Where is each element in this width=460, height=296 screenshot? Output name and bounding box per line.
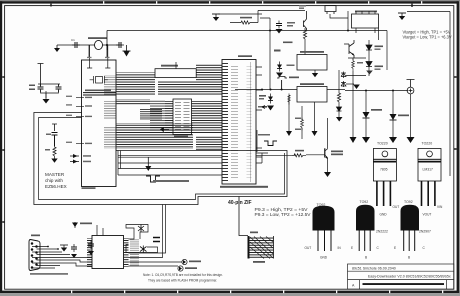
TO92 Q2 [394,200,431,260]
pin names U1 inside left [85,97,92,98]
wires U7 to master [129,205,166,258]
diode D1 [277,62,282,72]
label R9 [45,149,50,151]
ground Q4 emitter [324,172,331,177]
svg-text:Note: 1. C6,C9,R7S,9TB are not: Note: 1. C6,C9,R7S,9TB are not installed… [143,273,223,277]
diode D9 [74,222,76,228]
ground mid-top [212,14,220,21]
pins U4 left [165,101,173,133]
ground K1 [312,73,318,77]
TO220 U3 7805 [367,142,399,217]
ground top-right [398,13,406,20]
resistor network RP1 [239,197,274,263]
pin labels U7 right [130,239,139,266]
MCU U1 89C51 box [82,60,117,187]
resistor R9 [53,145,56,159]
label R5 [357,62,363,64]
ground D1 [276,73,283,78]
ground DB9 [60,245,68,252]
zener ZD3 [341,72,346,79]
capacitor C9 [88,241,94,249]
capacitor C8 [71,244,77,252]
svg-text:VIN: VIN [437,205,443,209]
svg-text:They are based with FLASH PROM: They are based with FLASH PROM programme… [148,279,217,283]
pin numbers U1 top [87,57,92,58]
pins U4 inner [175,102,181,132]
zener D11 [140,246,147,253]
label LED2 [185,267,197,269]
arrow marker fan [161,128,170,132]
body Q1 [356,205,375,231]
label C10 [287,22,295,24]
label D2 [259,95,266,97]
body U5 [418,159,441,181]
arrow net marker [262,106,267,109]
loop wire lower [126,245,158,253]
junction U6 in [261,89,263,91]
label AT89C51 below box [82,187,96,189]
TO92 Q1 [351,200,388,260]
capacitor C7 [52,133,58,147]
latch U2 box [155,62,196,78]
ground R9 [51,159,57,163]
MAX232 U7 box [92,236,124,269]
resistor R2 [303,28,306,42]
resistor R10 [292,154,306,157]
wire U7 out right [129,262,183,266]
wire U6 out [327,89,345,91]
label D8 [398,115,409,117]
pin K1 inner [314,70,316,73]
svg-text:TO92: TO92 [404,200,413,204]
wire fuse drop [281,80,283,90]
label L2 [283,42,293,44]
ground D8 [389,137,397,143]
bracket symbol reset [146,176,160,182]
label MASTER chip [45,172,67,189]
wire row E [118,174,222,176]
ground TP1 [407,137,415,143]
label RP1 value [253,261,265,263]
label K1 [300,51,324,53]
legs Q2 [404,231,415,252]
wires DB9 [32,247,92,269]
legs Q1 [359,231,370,252]
svg-text:B: B [365,256,367,260]
transistor Q4 [324,118,343,177]
label D9 [80,223,92,225]
frame tick marks [2,4,456,222]
label L1 [88,37,107,39]
fan curves U4 left [150,100,165,132]
label ZIF top [238,55,252,57]
diode D5 [368,40,370,58]
resistor R5 [352,59,355,71]
wire TP1 down [410,94,412,137]
ZIF socket U5 [220,55,270,188]
tab U3 [373,149,396,160]
label ZIF bottom devices [220,186,268,188]
junction dots wires [47,246,49,248]
transistor Q7 [349,40,354,58]
master module border inner [39,118,285,200]
label R10 [295,150,304,152]
svg-text:TO220: TO220 [422,142,433,146]
svg-text:89c51 Sirichote 06.09.2040: 89c51 Sirichote 06.09.2040 [352,267,396,271]
label U2 [161,65,178,67]
label Q4 [331,151,343,153]
wire from jack [330,11,348,31]
tab U5 [418,149,441,160]
wire RP1 feed [239,197,248,236]
label P1 [31,235,40,237]
junction node VCC [106,44,108,46]
svg-text:C1: C1 [71,38,75,42]
pin U7 top [97,225,103,236]
title block [348,264,454,289]
wire D5 top join [346,58,366,76]
svg-text:TO92: TO92 [360,200,369,204]
wire ZIF right down [256,130,258,152]
label C4 [29,85,35,87]
pin labels ZIF inner [231,64,238,180]
wire bus to U6 [235,89,297,91]
wire row A [118,153,296,163]
legs Q3 [318,231,331,252]
wire mid jumper [218,13,262,15]
svg-text:MASTER: MASTER [45,172,65,177]
ground input left [54,45,60,52]
ground D2 [267,106,274,111]
wire cap rail [38,84,60,98]
svg-text:chip with: chip with [45,178,63,183]
title block revision bar [363,283,445,285]
junction dots x270 [269,30,271,32]
label U1 name [85,90,111,92]
bracket symbol target [264,141,277,146]
pin stubs U1 left [76,98,84,144]
legs U3 [377,181,391,206]
right power section [341,11,415,144]
label D1 [287,65,295,67]
label LED1 [189,261,201,263]
wire R2 to K1 [304,42,306,55]
pins U4 right [192,101,200,133]
master module border outer [34,113,287,205]
TO220 U5 LM317 [410,142,443,217]
power entry section [230,5,349,139]
loop wire upper [126,225,148,240]
svg-text:E: E [351,246,353,250]
label U6 [300,83,324,85]
svg-text:2N2907: 2N2907 [419,230,431,234]
transistor Q6 [304,11,307,30]
schematic inner right border [449,12,451,177]
pins U7 left [87,238,92,267]
body RP1 [248,236,250,259]
resistor R1 input [239,21,253,24]
wire caps join [41,90,59,93]
resistor R8 column [301,106,303,139]
ground after C2 [123,45,131,57]
label ZIF right mid [258,106,267,108]
svg-text:OUT: OUT [305,246,312,250]
wire bundle U1 right lower [117,123,194,149]
pin XTAL2 [105,45,110,68]
capacitor C1 [72,42,80,48]
label Q6 [299,5,306,7]
label D7 [371,109,382,111]
pin U2 top [175,62,177,69]
capacitor C10 [276,21,282,29]
wire row D [118,168,222,170]
inductor L1 [95,40,103,49]
svg-text:Vtarget = Low, TP1 = +6.3V: Vtarget = Low, TP1 = +6.3V [403,34,452,39]
label DB9 female [30,273,68,275]
diode D8 [392,91,394,138]
zener D7 [365,91,367,138]
wire top-right jumper [407,11,450,13]
wire input row [230,11,305,90]
ZIF pin bundle lower [196,136,222,150]
zener ZD4 row [341,81,346,87]
LED2 [178,266,183,271]
ground D7 [362,137,370,143]
svg-text:Easy-Downloader V2.0 89C51/89C: Easy-Downloader V2.0 89C51/89C52/89C55/8… [368,274,451,278]
pins ZIF left inner [223,62,229,182]
junction dots vtarget [365,90,367,92]
ground C10 [276,29,283,34]
wire to Q4 base [306,154,325,156]
label R1 [240,17,252,19]
label D5 [375,46,384,48]
label C7 [46,134,51,136]
pins ZIF right stubs [256,67,268,163]
fuse F1 [277,77,287,79]
wire input [57,44,122,46]
connector P1 DB9 [29,240,40,271]
wire K2 pin drop [344,28,379,44]
wires U4 to ZIF [200,101,223,133]
pin U6 gnd [289,95,315,131]
LED1 [182,259,187,264]
wire riser to top bus [106,31,108,59]
body U3 [373,159,396,181]
resistor R4 [337,91,340,105]
ZIF pin bundle upper [196,64,222,96]
test point TP1 [407,87,414,94]
wire row C [118,162,222,164]
relay K2 box [352,14,379,28]
label U4 [174,136,188,138]
ground D4 [336,117,343,122]
ground C8 [71,254,77,258]
body Q2 [401,205,420,231]
crystal X1 inside U1 [90,76,108,84]
zener D10 [138,225,144,233]
label K2 [355,11,377,13]
svg-text:LM317: LM317 [423,168,433,172]
capacitor C5 [56,84,62,92]
wire row B [118,156,222,158]
svg-text:E: E [394,246,396,250]
wire vtarget bus [345,90,408,92]
label jmp [274,50,281,52]
diode D4 [338,105,340,117]
diode pair arrows [70,156,79,162]
capacitor C3 stub [89,45,107,58]
pin name labels U1 inside right [104,75,116,96]
body Q3 [313,206,335,231]
left bypass caps cluster [29,64,62,104]
testpoint stub [38,64,44,85]
pin numbers U1 left [66,96,72,97]
wire risers left [118,151,121,176]
svg-text:40-pin ZIF: 40-pin ZIF [228,200,252,206]
svg-text:OUT: OUT [393,205,400,209]
serial port section [29,205,201,275]
buffer U4 DIP box [165,99,222,137]
svg-text:TO220: TO220 [377,142,388,146]
wire column x339 [338,70,340,91]
diode D6 [368,58,370,76]
net labels mid [140,108,162,120]
label D6 [375,66,384,68]
pins K2 [356,11,375,33]
capacitor C2 [116,42,124,48]
svg-text:2N2222: 2N2222 [376,230,388,234]
wire top horizontal bus [107,30,387,32]
svg-text:P9.3 = Low, TP2 = +12.5V: P9.3 = Low, TP2 = +12.5V [255,212,311,217]
ground D6 [366,71,373,75]
pin column ZIF right inner [250,62,252,182]
fan bundle U2 to ZIF [158,81,196,96]
svg-text:B: B [408,256,410,260]
wire bundle U1 right upper [117,73,156,96]
label toggle chip enable pulse [153,180,189,182]
label F1 [289,77,299,79]
pin XTAL1 [87,45,92,68]
pins U7 right [124,238,129,267]
pulse drop arrow [147,157,149,166]
TO92 Q3 [305,203,342,260]
wire R5 column down [352,76,354,137]
svg-text:GND: GND [320,256,328,260]
pullup column: testpoint [52,124,57,131]
relay K1 box [297,55,327,71]
resistor R6 [153,238,160,242]
DC jack J2 [325,6,336,15]
top-left input filter [54,31,131,84]
ground caps [43,93,50,104]
svg-text:GND: GND [380,212,388,216]
svg-text:EZ56.HEX: EZ56.HEX [45,184,67,189]
zener D2 [268,94,273,104]
label RP1 [250,232,258,234]
capacitor C4 [38,84,44,92]
legs U5 [422,181,435,206]
ground arrows U6 [286,131,318,136]
wire K2 down [386,31,388,71]
pins DB9 col1 [31,242,38,269]
resistor R3 [288,93,291,104]
ground C9 [88,251,94,255]
regulator U6 box [297,87,327,103]
svg-text:7805: 7805 [380,168,388,172]
svg-text:VOUT: VOUT [423,212,432,216]
